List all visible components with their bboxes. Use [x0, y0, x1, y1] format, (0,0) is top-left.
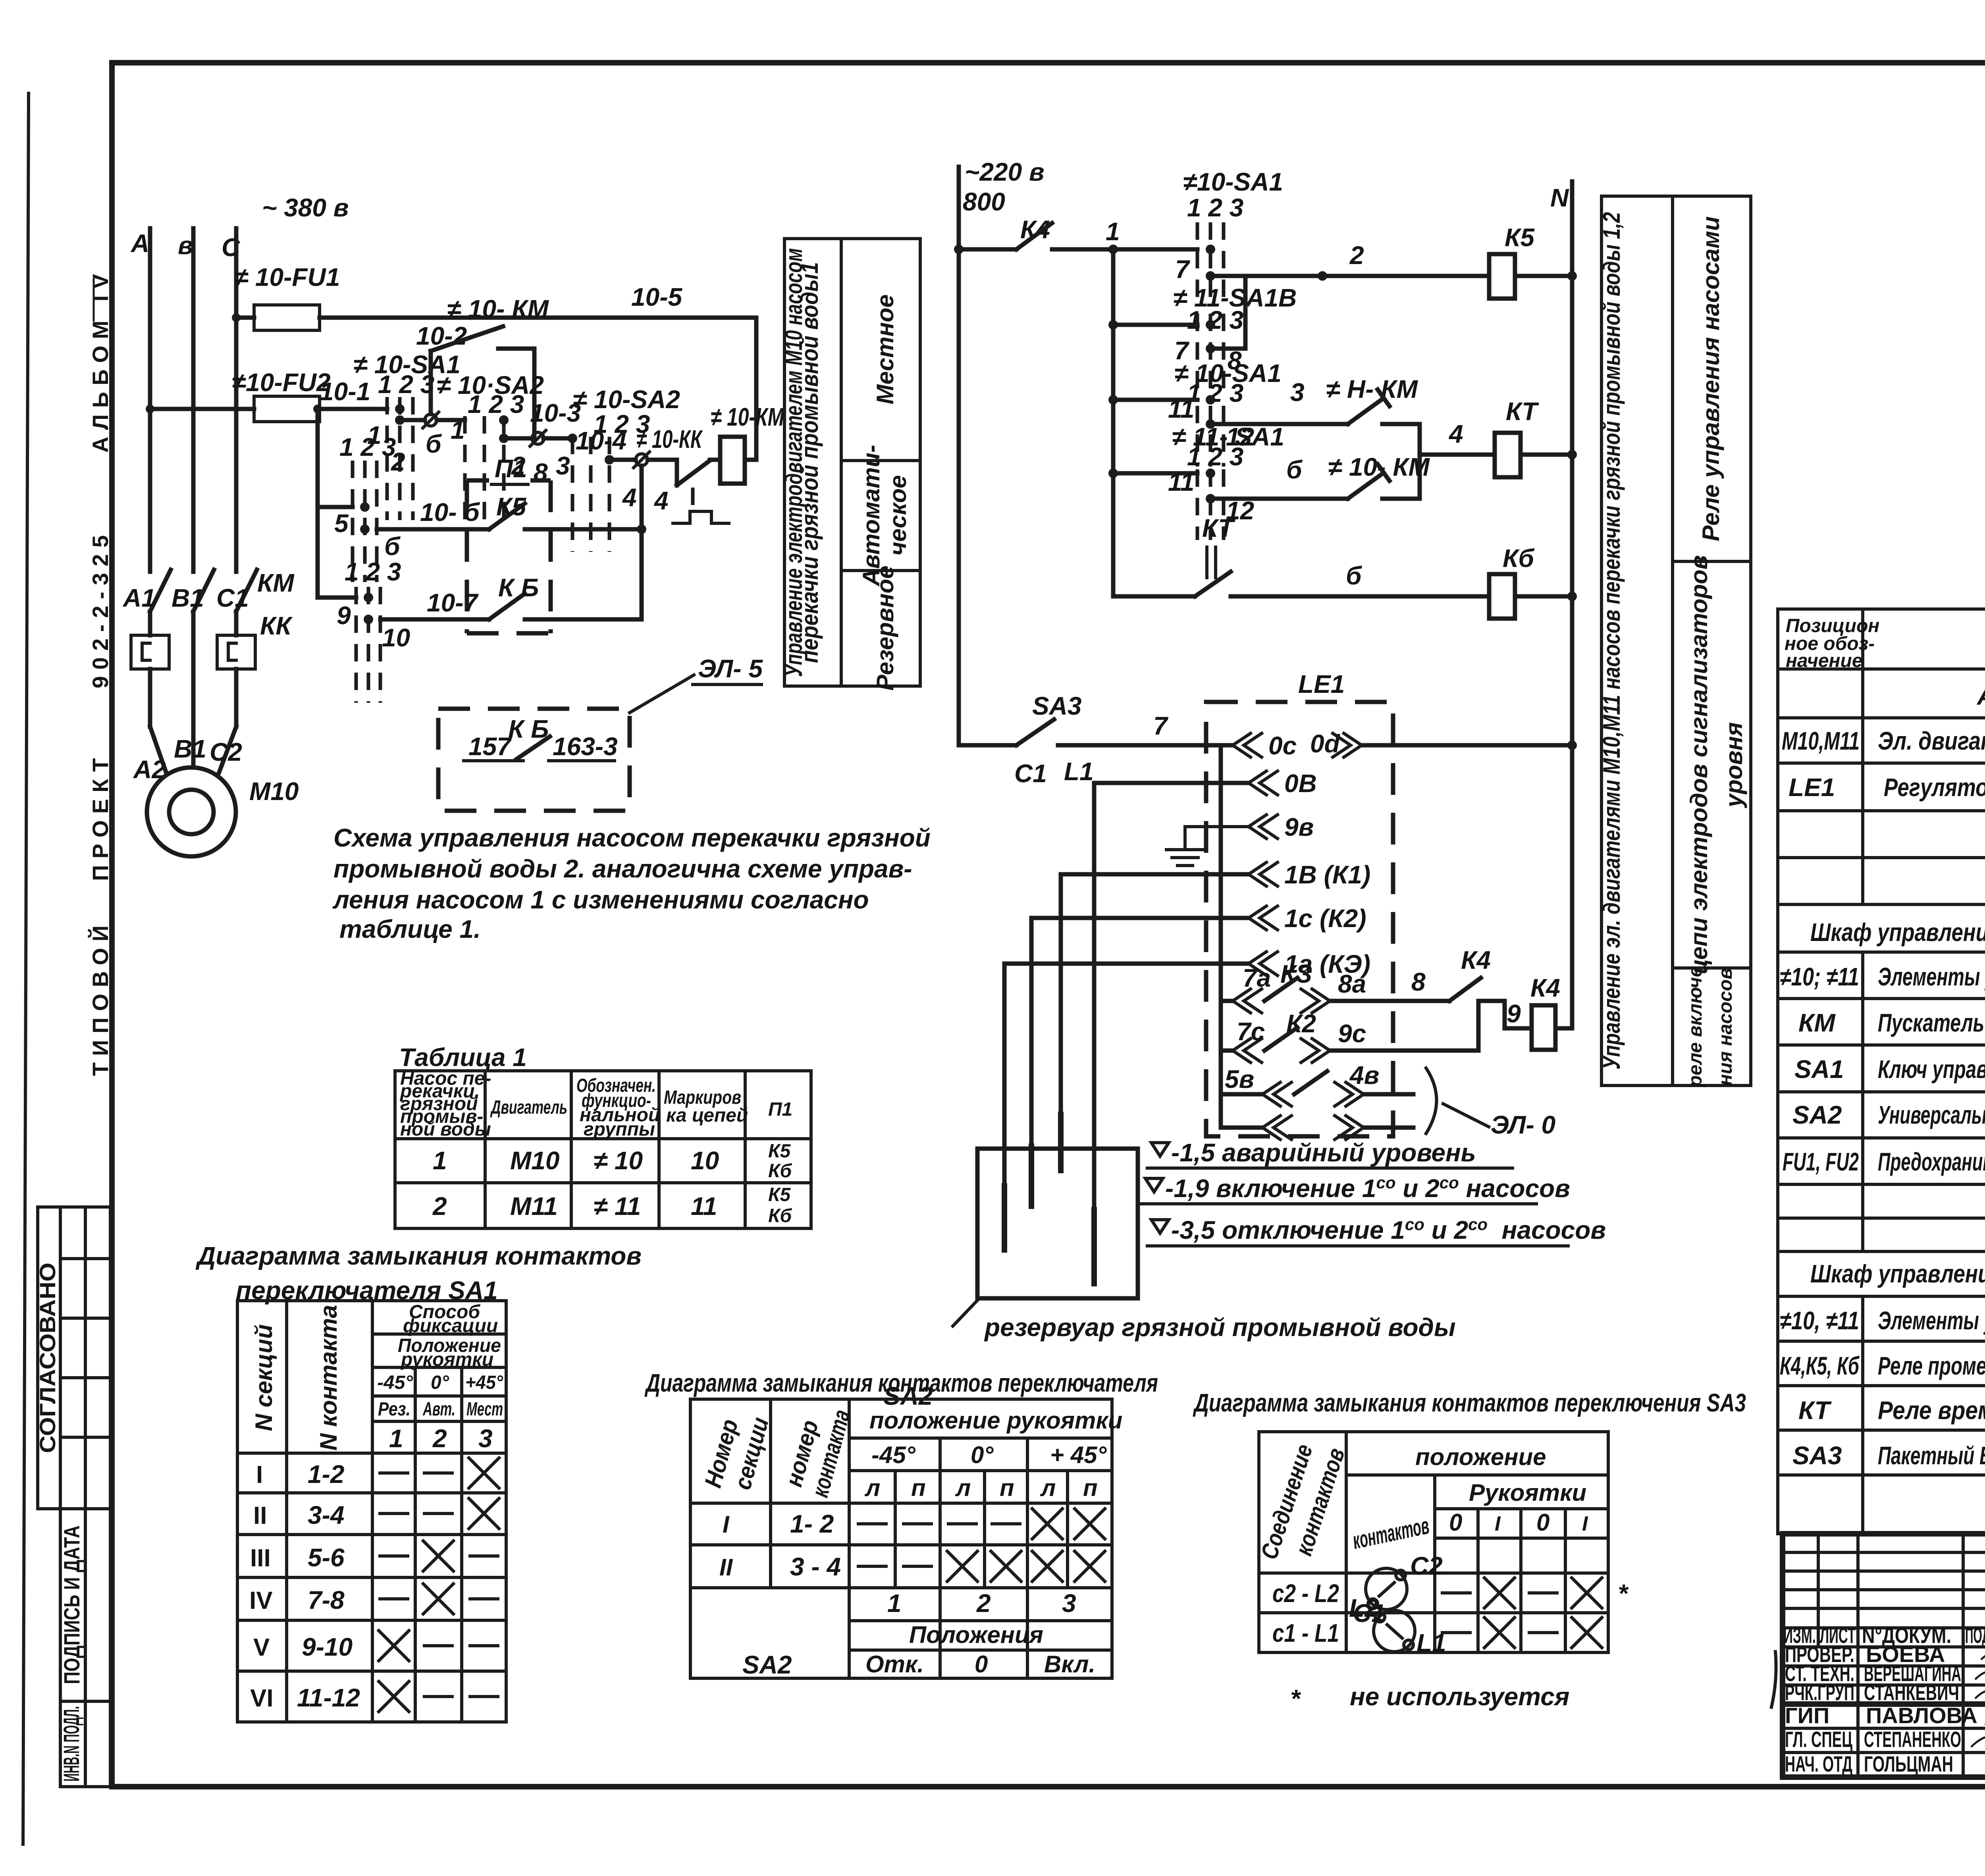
svg-text:1 2 3: 1 2 3	[468, 390, 524, 418]
svg-text:В1: В1	[172, 584, 204, 612]
svg-text:К5: К5	[768, 1141, 791, 1162]
svg-text:4: 4	[1448, 420, 1463, 448]
contact K5 (10-6)	[377, 527, 489, 532]
svg-text:М11: М11	[510, 1192, 558, 1220]
svg-text:Элементы управления электрод: Элементы управления электродвигателямим1…	[1878, 962, 1985, 991]
svg-text:N: N	[1550, 183, 1569, 212]
svg-text:1 2 3: 1 2 3	[339, 433, 396, 461]
heater symbol	[673, 511, 729, 523]
svg-text:8: 8	[1411, 968, 1426, 996]
svg-text:НАЧ. ОТД: НАЧ. ОТД	[1785, 1751, 1852, 1776]
wire to deep electrode	[1094, 781, 1249, 785]
svg-text:~220 в: ~220 в	[965, 158, 1045, 186]
SA2 marks row II	[858, 1565, 886, 1568]
svg-text:М10,М11: М10,М11	[1782, 727, 1860, 755]
svg-text:б: б	[426, 430, 442, 458]
svg-text:I: I	[723, 1511, 730, 1538]
svg-text:перекачки грязной промывной во: перекачки грязной промывной воды1	[796, 262, 823, 663]
svg-text:0с: 0с	[1268, 731, 1297, 760]
level mark -1.5 emergency	[1151, 1143, 1169, 1156]
svg-text:I: I	[1582, 1512, 1588, 1535]
svg-text:КМ: КМ	[1798, 1008, 1836, 1037]
contact K3 row 7a-8a	[1233, 989, 1262, 1013]
thermal element KK phase A	[131, 635, 169, 669]
svg-text:л: л	[955, 1475, 971, 1501]
svg-text:ГИП: ГИП	[1785, 1703, 1829, 1728]
relay coil KT	[1495, 433, 1521, 477]
svg-text:1-2: 1-2	[308, 1460, 345, 1488]
svg-text:10-7: 10-7	[427, 588, 479, 617]
feeder bus	[1111, 249, 1116, 596]
level mark -3.5 pumps off	[1151, 1220, 1169, 1233]
rotated caption box 2	[1601, 196, 1751, 1085]
svg-text:1с (К2): 1с (К2)	[1284, 904, 1366, 933]
svg-text:*: *	[1618, 1579, 1629, 1608]
svg-text:ИНВ.N ПОДЛ.: ИНВ.N ПОДЛ.	[59, 1706, 84, 1782]
svg-text:11-12: 11-12	[297, 1683, 360, 1712]
svg-text:л: л	[864, 1475, 880, 1501]
svg-text:1: 1	[1106, 217, 1120, 246]
svg-text:Регулятор- сигнализатор уров: Регулятор- сигнализатор уровня ЭРСУ-3	[1884, 773, 1985, 802]
svg-text:5-6: 5-6	[308, 1543, 345, 1572]
svg-text:Шкаф управления насосами пере: Шкаф управления насосами перекачки грязн…	[1810, 1259, 1985, 1288]
vertical node-4 bus	[640, 466, 644, 619]
svg-text:-45°: -45°	[377, 1372, 413, 1393]
svg-text:п: п	[1000, 1475, 1014, 1501]
svg-text:Мест: Мест	[466, 1399, 503, 1420]
svg-text:К4,К5, Кб: К4,К5, Кб	[1780, 1352, 1860, 1380]
svg-text:2: 2	[1349, 241, 1364, 270]
svg-text:SА1: SА1	[1794, 1055, 1844, 1084]
svg-text:Положения: Положения	[909, 1621, 1043, 1648]
rotated caption box 1	[784, 239, 920, 686]
svg-text:К Б: К Б	[498, 573, 539, 602]
svg-text:С1: С1	[1353, 1599, 1386, 1627]
svg-text:с2 - L2: с2 - L2	[1272, 1579, 1339, 1608]
SA1 table grid	[237, 1301, 506, 1722]
svg-text:+ 45°: + 45°	[1050, 1442, 1107, 1468]
svg-text:б: б	[384, 532, 401, 561]
svg-text:9-10: 9-10	[302, 1633, 353, 1661]
svg-text:ка цепей: ка цепей	[666, 1105, 748, 1126]
svg-text:цепи электродов сигнализатор: цепи электродов сигнализаторов	[1686, 555, 1712, 974]
svg-text:Схема управления насосом: Схема управления насосом перекачки грязн…	[333, 823, 931, 852]
svg-text:7а: 7а	[1243, 964, 1271, 992]
Инв N подл box	[60, 1701, 110, 1787]
svg-text:800: 800	[963, 187, 1005, 216]
svg-text:1- 2: 1- 2	[790, 1510, 834, 1538]
svg-text:Предохранитель НПН2-Б0, ~380: Предохранитель НПН2-Б0, ~380 В пл. Вст.6…	[1878, 1147, 1985, 1176]
svg-text:Шкаф управления насосами п: Шкаф управления насосами перекачки грязн…	[1810, 918, 1985, 947]
sheet outer edge line	[23, 93, 29, 1844]
svg-text:0: 0	[1536, 1509, 1549, 1536]
svg-text:III: III	[250, 1544, 271, 1572]
svg-text:резервуар грязной промывной: резервуар грязной промывной воды	[984, 1313, 1456, 1342]
svg-text:II: II	[253, 1502, 267, 1529]
svg-text:7с: 7с	[1237, 1017, 1265, 1046]
svg-text:С2: С2	[1410, 1552, 1443, 1580]
svg-text:С2: С2	[210, 738, 242, 766]
svg-text:Универсальный переключательУ: Универсальный переключательУП5311-А3Б ТУ…	[1878, 1101, 1985, 1129]
signature table	[1817, 1534, 1820, 1647]
svg-text:II: II	[719, 1554, 733, 1581]
svg-text:1: 1	[887, 1589, 902, 1618]
terminal 1c (K2)	[1249, 906, 1278, 930]
handwritten revision slash	[1771, 1652, 1776, 1707]
svg-text:≠ 10: ≠ 10	[594, 1146, 643, 1175]
rotary contact b	[400, 418, 425, 422]
svg-text:Автомати-: Автомати-	[858, 445, 885, 587]
svg-text:К4: К4	[1461, 946, 1491, 974]
rotary contact 10-3 node 8	[504, 436, 532, 441]
svg-text:9: 9	[1507, 999, 1521, 1028]
svg-text:С1: С1	[1014, 759, 1047, 788]
electrode level -1.9	[1031, 916, 1249, 920]
svg-text:≠ 11: ≠ 11	[594, 1192, 641, 1220]
svg-text:LЕ1: LЕ1	[1298, 670, 1345, 698]
terminal 9B with ground	[1249, 815, 1278, 839]
svg-text:реле включе: реле включе	[1685, 966, 1706, 1087]
svg-text:SА3: SА3	[1792, 1441, 1842, 1470]
electrode level -3.5	[1004, 962, 1249, 966]
svg-text:1: 1	[389, 1424, 403, 1453]
svg-text:N контакта: N контакта	[315, 1305, 342, 1450]
svg-text:4: 4	[653, 486, 669, 515]
phase rail C	[234, 228, 239, 572]
tank	[977, 1149, 1138, 1298]
svg-text:КМ: КМ	[257, 569, 295, 597]
svg-text:9с: 9с	[1338, 1019, 1366, 1048]
svg-text:4: 4	[622, 483, 637, 512]
svg-text:157: 157	[468, 732, 512, 761]
svg-text:3-4: 3-4	[308, 1501, 345, 1529]
phase rail A	[148, 228, 152, 572]
svg-text:7: 7	[1153, 711, 1169, 740]
svg-text:с1 - L1: с1 - L1	[1272, 1619, 1339, 1647]
svg-text:б: б	[1286, 455, 1303, 484]
svg-text:3: 3	[1062, 1589, 1076, 1618]
svg-text:М10: М10	[510, 1146, 560, 1175]
svg-text:≠10; ≠11: ≠10; ≠11	[1780, 962, 1859, 991]
svg-text:11: 11	[1168, 468, 1194, 496]
branch wire down from 10-1	[316, 409, 320, 598]
svg-text:≠ 10-КК: ≠ 10-КК	[636, 425, 703, 453]
internal bus	[1219, 745, 1223, 1128]
contactor KM pole C	[236, 570, 257, 611]
break contact H-KM wire 3	[1210, 422, 1348, 426]
svg-text:0°: 0°	[431, 1372, 449, 1393]
title block outer	[1783, 1534, 1985, 1777]
spare terminal row	[1262, 1116, 1291, 1139]
thermal element KK phase C	[217, 635, 255, 669]
svg-text:П1: П1	[768, 1099, 792, 1120]
svg-text:А: А	[130, 229, 149, 258]
svg-text:10: 10	[382, 623, 410, 652]
svg-text:К5: К5	[768, 1184, 791, 1205]
leader EL-5	[630, 675, 694, 713]
svg-text:К5: К5	[1505, 223, 1535, 252]
svg-text:1: 1	[433, 1146, 447, 1175]
svg-text:Управление эл. двигателями М1: Управление эл. двигателями М10,М11 насос…	[1598, 212, 1625, 1070]
svg-text:Реле управления насосами: Реле управления насосами	[1698, 216, 1724, 541]
svg-text:СОГЛАСОВАНО: СОГЛАСОВАНО	[35, 1263, 60, 1453]
svg-text:VI: VI	[250, 1685, 274, 1712]
svg-text:10- б: 10- б	[420, 498, 480, 526]
motor M10	[147, 767, 236, 856]
svg-text:КТ: КТ	[1506, 397, 1539, 426]
left 220V rail	[957, 167, 961, 745]
svg-text:0: 0	[975, 1651, 988, 1677]
svg-text:SА2: SА2	[1792, 1101, 1842, 1129]
svg-text:Авт.: Авт.	[422, 1399, 455, 1420]
svg-text:группы: группы	[584, 1119, 655, 1140]
svg-text:+45°: +45°	[465, 1372, 503, 1393]
svg-text:I: I	[256, 1461, 263, 1488]
svg-text:Двигатель: Двигатель	[490, 1097, 567, 1118]
svg-text:ческое: ческое	[885, 475, 911, 556]
SA2 table grid	[690, 1399, 1112, 1678]
svg-text:0°: 0°	[971, 1442, 994, 1468]
svg-text:≠10, ≠11: ≠10, ≠11	[1780, 1306, 1859, 1335]
svg-text:5: 5	[334, 509, 349, 538]
terminal 0B	[1249, 771, 1278, 795]
Согласовано box	[38, 1207, 110, 1509]
svg-text:9: 9	[337, 601, 351, 630]
electrode level -1.5	[1061, 872, 1249, 877]
svg-text:Ключ управления ПКУЗ-12С-3033: Ключ управления ПКУЗ-12С-3033 МРТУ16-526…	[1878, 1055, 1985, 1084]
svg-text:10-5: 10-5	[631, 283, 683, 311]
svg-text:Вкл.: Вкл.	[1044, 1651, 1095, 1677]
svg-text:Реле промежуточноеРП-25,4з-1: Реле промежуточноеРП-25,4з-1р ~220В. ТУ1…	[1878, 1352, 1985, 1380]
svg-text:≠10-FU2: ≠10-FU2	[232, 368, 331, 397]
svg-text:SA2: SA2	[883, 1382, 933, 1410]
svg-text:9в: 9в	[1284, 813, 1314, 841]
svg-text:1 2 3: 1 2 3	[1187, 379, 1243, 407]
svg-text:Кб: Кб	[768, 1205, 792, 1226]
svg-text:таблице 1.: таблице 1.	[339, 915, 481, 943]
svg-text:~ 380 в: ~ 380 в	[262, 193, 349, 222]
svg-text:Таблица 1: Таблица 1	[399, 1043, 527, 1072]
svg-text:5в: 5в	[1225, 1065, 1254, 1093]
terminal 0c	[1233, 733, 1262, 757]
svg-text:К5: К5	[496, 492, 526, 521]
svg-text:≠10-SA1: ≠10-SA1	[1183, 168, 1283, 196]
svg-text:п: п	[911, 1475, 926, 1501]
SA3 table grid	[1259, 1432, 1608, 1652]
svg-text:11: 11	[691, 1192, 717, 1220]
group bracket EL-0	[1426, 1068, 1437, 1134]
terminal 1B (K1)	[1249, 862, 1278, 886]
svg-text:3 - 4: 3 - 4	[790, 1552, 841, 1581]
svg-text:промывной воды 2. аналогичн: промывной воды 2. аналогична схеме управ…	[333, 854, 912, 883]
contactor KM pole B	[193, 570, 214, 611]
svg-text:163-3: 163-3	[553, 732, 618, 761]
dashed box P1	[467, 478, 489, 483]
svg-text:0: 0	[1449, 1509, 1462, 1536]
level mark -1.9 pumps on	[1145, 1178, 1163, 1192]
svg-text:КТ: КТ	[1202, 514, 1235, 542]
svg-text:Эл. двигатель типа А02-52-4,: Эл. двигатель типа А02-52-4, 10кВт, ~380…	[1878, 727, 1985, 755]
svg-text:б: б	[1346, 561, 1363, 590]
svg-text:4в: 4в	[1349, 1061, 1379, 1089]
svg-text:≠ 10-FU1: ≠ 10-FU1	[234, 263, 340, 291]
svg-text:Диаграмма замыкания контактов: Диаграмма замыкания контактов	[195, 1242, 642, 1270]
svg-text:≠ 10-КМ: ≠ 10-КМ	[711, 403, 784, 431]
svg-text:-3,5 отключение 1со и 2со на: -3,5 отключение 1со и 2со насосов	[1171, 1215, 1606, 1244]
svg-text:L1: L1	[1064, 757, 1094, 786]
svg-text:1 2 3: 1 2 3	[1187, 306, 1243, 334]
svg-text:2: 2	[976, 1589, 991, 1618]
ground	[1185, 827, 1249, 848]
svg-text:SA2: SA2	[742, 1650, 792, 1679]
EL-5 dashed box with contact KB	[438, 709, 630, 811]
svg-text:Аппаратура по месту: Аппаратура по месту	[1976, 682, 1985, 710]
svg-text:-45°: -45°	[871, 1442, 916, 1468]
thermal contact KK	[648, 460, 677, 485]
terminal 1a (KE)	[1249, 952, 1278, 976]
svg-text:10-4: 10-4	[576, 426, 626, 455]
svg-text:П1: П1	[495, 454, 527, 483]
svg-text:Местное: Местное	[872, 294, 898, 404]
svg-text:10-1: 10-1	[320, 377, 370, 406]
svg-text:Элементы управления электро: Элементы управления электродвигателями м…	[1878, 1306, 1985, 1335]
svg-text:10: 10	[691, 1146, 719, 1175]
svg-text:положение: положение	[1415, 1444, 1546, 1470]
svg-text:-1,9 включение 1со и 2со насо: -1,9 включение 1со и 2со насосов	[1165, 1173, 1570, 1203]
svg-text:не используется: не используется	[1350, 1682, 1569, 1711]
svg-text:в: в	[178, 231, 193, 260]
svg-text:ПАВЛОВА: ПАВЛОВА	[1866, 1703, 1977, 1728]
svg-text:п: п	[1083, 1475, 1098, 1501]
svg-text:С1: С1	[216, 584, 249, 612]
svg-text:Реле времени РВП72-3121-00У4: Реле времени РВП72-3121-00У4 380/50	[1878, 1396, 1985, 1425]
svg-text:СТАНКЕВИЧ: СТАНКЕВИЧ	[1864, 1680, 1959, 1705]
svg-text:≠ Н- КМ: ≠ Н- КМ	[1326, 375, 1418, 403]
svg-text:уровня: уровня	[1721, 722, 1747, 808]
contactor KM pole A	[150, 570, 171, 611]
svg-text:Кб: Кб	[768, 1161, 792, 1182]
svg-text:1 2 3: 1 2 3	[1187, 442, 1243, 471]
svg-text:фиксации: фиксации	[403, 1315, 498, 1336]
svg-text:*: *	[1290, 1684, 1301, 1713]
SA2 marks row I	[858, 1522, 886, 1525]
svg-text:М10: М10	[249, 777, 299, 806]
svg-text:3: 3	[1290, 378, 1305, 407]
svg-text:1 2 3: 1 2 3	[345, 557, 401, 586]
svg-text:1 2 3: 1 2 3	[1187, 193, 1243, 222]
svg-text:1В (К1): 1В (К1)	[1284, 860, 1370, 889]
svg-text:РЧК.ГРУП: РЧК.ГРУП	[1785, 1680, 1854, 1705]
svg-text:СТЕПАНЕНКО: СТЕПАНЕНКО	[1864, 1727, 1961, 1752]
svg-text:ЭЛ- 0: ЭЛ- 0	[1491, 1111, 1555, 1139]
svg-text:3: 3	[478, 1424, 493, 1453]
svg-text:рукоятки: рукоятки	[400, 1349, 493, 1370]
svg-text:Кб: Кб	[1503, 544, 1535, 573]
wire 4 to time relay KT	[1420, 453, 1495, 457]
svg-text:≠ 10- КМ: ≠ 10- КМ	[447, 295, 549, 323]
svg-text:начение: начение	[1786, 650, 1863, 671]
svg-text:ления насосом 1 с измен: ления насосом 1 с изменениями согласно	[332, 885, 869, 914]
svg-text:Рез.: Рез.	[378, 1399, 410, 1420]
svg-text:Пакетный Выключатель ПВ2-10: Пакетный Выключатель ПВ2-10 ОСТ16. 0. 52…	[1878, 1441, 1985, 1470]
svg-text:л: л	[1040, 1475, 1056, 1501]
svg-text:1 2 3: 1 2 3	[378, 370, 434, 399]
svg-text:V: V	[253, 1634, 270, 1661]
svg-text:2: 2	[432, 1192, 447, 1220]
svg-text:К4: К4	[1530, 974, 1560, 1002]
svg-text:7-8: 7-8	[308, 1586, 345, 1614]
svg-text:SA3: SA3	[1032, 692, 1082, 720]
Подпись и дата box	[60, 1509, 110, 1701]
svg-text:ГОЛЬЦМАН: ГОЛЬЦМАН	[1864, 1751, 1953, 1776]
wire 2 to relay K5	[1210, 274, 1489, 278]
electrode (bottom)	[1092, 783, 1097, 1207]
SA1 marks	[380, 1471, 408, 1475]
svg-text:2: 2	[432, 1424, 447, 1453]
break contact 10-KM wire b	[1210, 497, 1348, 501]
svg-text:7: 7	[1175, 255, 1191, 283]
svg-text:ПОДПИСЬ И ДАТА: ПОДПИСЬ И ДАТА	[59, 1525, 84, 1684]
phase rail B	[191, 228, 196, 572]
svg-text:Отк.: Отк.	[865, 1651, 924, 1677]
svg-text:N секций: N секций	[251, 1324, 277, 1431]
svg-text:ния насосов: ния насосов	[1715, 968, 1736, 1086]
svg-text:8а: 8а	[1338, 970, 1366, 998]
svg-text:IV: IV	[249, 1587, 273, 1614]
svg-text:А1: А1	[122, 584, 156, 612]
svg-text:LЕ1: LЕ1	[1788, 773, 1835, 802]
svg-text:ГЛ. СПЕЦ: ГЛ. СПЕЦ	[1785, 1727, 1852, 1752]
svg-text:Резервное: Резервное	[872, 566, 898, 691]
svg-text:В1: В1	[174, 735, 206, 763]
contact K6 (10-7)	[380, 617, 489, 622]
svg-text:Пускатель могнитный ПМЕ-212-: Пускатель могнитный ПМЕ-212-УЗ н.э.21,2А…	[1878, 1008, 1985, 1037]
signatures	[1981, 1652, 1985, 1664]
svg-text:ЭЛ- 5: ЭЛ- 5	[698, 654, 763, 683]
node 4 rotary contact 10-4	[609, 458, 636, 462]
svg-text:FU1, FU2: FU1, FU2	[1783, 1147, 1859, 1176]
svg-text:КК: КК	[260, 611, 293, 640]
svg-text:Диаграмма замыкания контакто: Диаграмма замыкания контактов переключен…	[1193, 1388, 1746, 1417]
svg-text:I: I	[1495, 1512, 1501, 1535]
SA1 contacts 5-6 (group g4)	[318, 505, 353, 509]
svg-text:ной воды: ной воды	[400, 1119, 491, 1140]
svg-text:КТ: КТ	[1798, 1396, 1832, 1425]
table 1 grid	[395, 1071, 811, 1228]
wire 10-5	[236, 316, 254, 320]
SA1 contacts 9-10 (group g5)	[318, 596, 356, 600]
svg-text:0В: 0В	[1284, 769, 1317, 798]
svg-text:положение рукоятки: положение рукоятки	[869, 1407, 1122, 1434]
svg-text:-1,5 аварийный уровень: -1,5 аварийный уровень	[1171, 1138, 1476, 1167]
contact K2 row 7c-9c	[1233, 1039, 1262, 1062]
components table grid	[1778, 609, 1985, 1534]
svg-text:3: 3	[556, 451, 570, 480]
svg-text:11: 11	[1168, 395, 1194, 423]
svg-text:Рукоятки: Рукоятки	[1469, 1479, 1586, 1506]
svg-text:ПОДПИСЬ: ПОДПИСЬ	[1965, 1623, 1985, 1648]
